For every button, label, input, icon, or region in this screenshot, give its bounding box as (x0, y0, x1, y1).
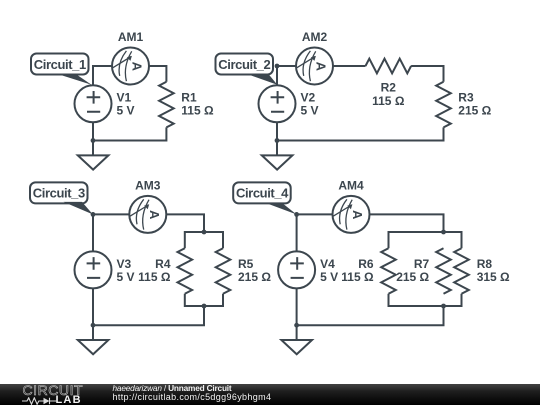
voltage source V1 (75, 85, 112, 122)
flag pointer Circuit_1 (56, 74, 92, 85)
junction dot circuit 3 top bar (202, 230, 207, 235)
junction dot circuit 4 node (294, 212, 299, 217)
wire node to AM3 (93, 214, 129, 251)
ground circuit 4 (281, 340, 312, 354)
svg-text:R6: R6 (358, 257, 374, 271)
wire pair to ground rail (93, 306, 204, 325)
wire V2 bottom to ground (276, 122, 278, 155)
junction dot circuit 3 rail (91, 323, 96, 328)
svg-text:5 V: 5 V (117, 104, 135, 118)
wire R2 to R3 (411, 66, 443, 82)
svg-text:AM2: AM2 (302, 30, 328, 44)
logo squiggle (22, 397, 57, 405)
wire AM2 to R2 (333, 65, 366, 67)
wire V3 bottom to ground (92, 288, 94, 340)
resistor R4 (178, 248, 193, 294)
resistor R8 (454, 248, 469, 294)
svg-text:R1: R1 (181, 91, 197, 105)
svg-text:Circuit_4: Circuit_4 (236, 186, 289, 201)
resistor R3 (436, 82, 451, 128)
wire trio to ground rail (297, 306, 444, 325)
svg-text:Circuit_1: Circuit_1 (34, 57, 86, 72)
svg-text:AM4: AM4 (338, 179, 364, 193)
svg-text:115 Ω: 115 Ω (138, 270, 171, 284)
node label Circuit_3 (30, 182, 88, 203)
svg-text:AM3: AM3 (135, 179, 161, 193)
svg-text:R4: R4 (155, 257, 171, 271)
svg-text:115 Ω: 115 Ω (181, 104, 214, 118)
svg-text:R7: R7 (414, 257, 430, 271)
junction dot circuit 1 (91, 138, 96, 143)
node label Circuit_4 (233, 182, 291, 203)
resistor R7 (436, 248, 451, 294)
node label Circuit_2 (216, 54, 274, 75)
junction dot circuit 4 bottom bar (441, 304, 446, 309)
svg-text:AM1: AM1 (118, 30, 144, 44)
ammeter AM3 (129, 196, 166, 233)
svg-text:5 V: 5 V (320, 270, 338, 284)
wire top bar circuit 3 (185, 232, 223, 248)
voltage source V4 (278, 251, 315, 288)
footer bar (0, 384, 540, 405)
svg-text:215 Ω: 215 Ω (238, 270, 271, 284)
wire V4 bottom to ground (296, 288, 298, 340)
ground circuit 1 (78, 155, 109, 169)
wire V2 top to node (277, 66, 296, 85)
svg-text:R3: R3 (458, 91, 474, 105)
ground circuit 3 (78, 340, 109, 354)
svg-text:Circuit_2: Circuit_2 (218, 57, 270, 72)
svg-text:5 V: 5 V (117, 270, 135, 284)
junction dot circuit 2 top (275, 64, 280, 69)
svg-text:V1: V1 (117, 91, 132, 105)
wire R1 bottom to ground rail (93, 127, 166, 140)
junction dot circuit 4 top bar (441, 230, 446, 235)
svg-text:115 Ω: 115 Ω (341, 270, 374, 284)
resistor R5 (216, 248, 231, 294)
wire AM4 to parallel trio (370, 214, 444, 232)
ground circuit 2 (262, 155, 293, 169)
svg-text:5 V: 5 V (301, 104, 319, 118)
footer text (113, 384, 272, 402)
svg-text:215 Ω: 215 Ω (396, 270, 429, 284)
svg-text:A: A (314, 62, 329, 72)
wire AM1 to R1 (149, 66, 166, 82)
resistor R1 (159, 82, 174, 128)
junction dot circuit 3 node (91, 212, 96, 217)
svg-text:R2: R2 (381, 81, 397, 95)
voltage source V3 (75, 251, 112, 288)
wire bottom bar circuit 4 (389, 294, 462, 306)
ammeter AM1 (112, 48, 149, 85)
svg-text:A: A (130, 62, 145, 72)
svg-text:R5: R5 (238, 257, 254, 271)
svg-text:115 Ω: 115 Ω (372, 94, 405, 108)
wire node to AM4 (297, 214, 333, 251)
wire V1 top to AM1 (93, 66, 112, 85)
svg-text:315 Ω: 315 Ω (477, 270, 510, 284)
junction dot circuit 4 rail (294, 323, 299, 328)
junction dot circuit 3 bottom bar (202, 304, 207, 309)
svg-text:A: A (147, 210, 162, 220)
svg-text:A: A (350, 210, 365, 220)
svg-text:R8: R8 (477, 257, 493, 271)
wire V1 bottom to ground (92, 122, 94, 155)
flag pointer Circuit_2 (246, 74, 278, 85)
svg-text:215 Ω: 215 Ω (458, 104, 491, 118)
svg-text:V2: V2 (301, 91, 316, 105)
ammeter AM4 (333, 196, 370, 233)
svg-text:Circuit_3: Circuit_3 (33, 186, 85, 201)
flag pointer Circuit_4 (266, 203, 297, 215)
wire R3 bottom to ground rail (277, 127, 444, 140)
resistor R2 (366, 59, 412, 74)
voltage source V2 (259, 85, 296, 122)
wire top bar circuit 4 (389, 232, 462, 248)
svg-text:V3: V3 (117, 257, 132, 271)
resistor R6 (381, 248, 396, 294)
ammeter AM2 (296, 48, 333, 85)
svg-text:V4: V4 (320, 257, 335, 271)
wire bottom bar circuit 3 (185, 294, 223, 306)
node label Circuit_1 (31, 54, 89, 75)
CircuitLab logo (22, 385, 102, 405)
junction dot circuit 2 bottom (275, 138, 280, 143)
flag pointer Circuit_3 (64, 202, 93, 215)
wire AM3 to parallel pair (166, 214, 204, 232)
